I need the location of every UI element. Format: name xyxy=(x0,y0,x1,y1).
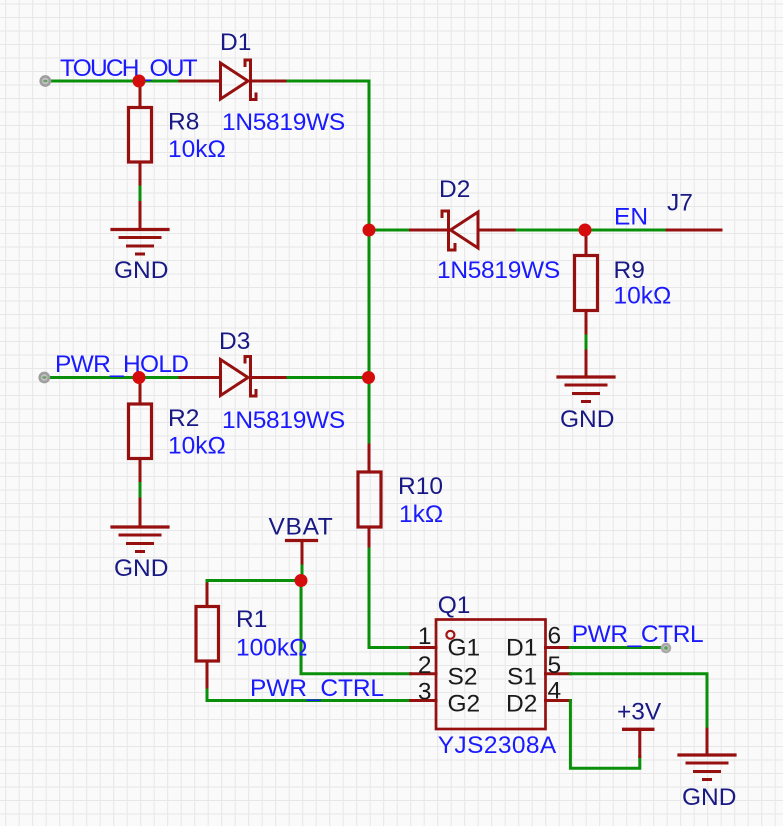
diode D3 triangle xyxy=(221,360,249,396)
svg-text:R1: R1 xyxy=(236,606,267,633)
wire R8 to GND xyxy=(139,187,142,203)
svg-text:VBAT: VBAT xyxy=(269,514,334,541)
svg-text:D1: D1 xyxy=(220,29,251,56)
power flag VBAT xyxy=(287,541,317,567)
wire junction to D2 xyxy=(369,229,411,232)
svg-text:D2: D2 xyxy=(439,176,470,203)
svg-text:Q1: Q1 xyxy=(438,592,471,619)
junction main/PWR_HOLD row xyxy=(362,371,375,384)
svg-text:3: 3 xyxy=(418,679,432,706)
Q1 pin 2 stub xyxy=(411,672,436,675)
svg-text:YJS2308A: YJS2308A xyxy=(438,732,557,759)
svg-text:TOUCH_OUT: TOUCH_OUT xyxy=(60,55,198,82)
resistor R10 top pin xyxy=(368,445,371,472)
ground symbol bottom right xyxy=(679,755,735,780)
port dot TOUCH_OUT xyxy=(39,75,51,87)
resistor R1 top pin xyxy=(206,584,209,607)
resistor R10 body xyxy=(358,472,381,527)
diode D3 cathode pin xyxy=(251,376,289,379)
svg-text:1N5819WS: 1N5819WS xyxy=(222,407,345,434)
diode D2 anode pin xyxy=(478,229,517,232)
pin-1 marker circle xyxy=(446,631,454,639)
diode D1 triangle xyxy=(221,63,249,99)
resistor R2 body xyxy=(129,404,152,459)
ground symbol under R2 xyxy=(112,527,168,552)
svg-text:R8: R8 xyxy=(168,109,199,136)
svg-text:+3V: +3V xyxy=(617,699,662,726)
wire D2 to J7 xyxy=(517,229,667,232)
svg-text:100kΩ: 100kΩ xyxy=(236,635,307,662)
svg-text:4: 4 xyxy=(548,678,562,705)
svg-text:2: 2 xyxy=(418,652,432,679)
wire VBAT to R1 xyxy=(207,581,301,585)
svg-text:S1: S1 xyxy=(507,664,537,691)
resistor R9 body xyxy=(575,256,598,311)
op chip Q1 body xyxy=(436,620,546,730)
wire PWR_HOLD horizontal xyxy=(49,376,180,379)
port dot PWR_CTRL xyxy=(661,643,672,654)
diode D2 schottky bar xyxy=(442,211,455,250)
diode D1 schottky bar xyxy=(245,60,256,100)
GND pin under R9 xyxy=(585,351,588,377)
wire D3 to main vertical xyxy=(288,376,369,379)
wire R1 to Q1 pin3 xyxy=(207,690,411,701)
wire VBAT down to Q1 pin2 xyxy=(301,581,411,674)
resistor R2 bottom pin xyxy=(139,459,142,484)
junction EN/R9 xyxy=(579,224,592,237)
resistor R8 bottom pin xyxy=(139,162,142,187)
power flag +3V xyxy=(624,729,653,756)
svg-text:R2: R2 xyxy=(168,405,199,432)
Q1 pin 4 stub xyxy=(546,699,571,702)
svg-text:6: 6 xyxy=(548,623,562,650)
junction TOUCH_OUT/R8 xyxy=(133,75,146,88)
diode D2 cathode pin xyxy=(411,229,449,232)
wire VBAT stem green xyxy=(301,566,304,575)
ground symbol under R9 xyxy=(558,377,614,402)
resistor R9 bottom pin xyxy=(585,311,588,337)
svg-text:1N5819WS: 1N5819WS xyxy=(437,257,560,284)
diode D2 triangle xyxy=(451,212,479,248)
connector J7 pin xyxy=(667,229,721,232)
svg-text:GND: GND xyxy=(682,784,736,811)
ground symbol under R8 xyxy=(112,230,168,255)
GND pin under R2 xyxy=(139,499,142,527)
svg-text:S2: S2 xyxy=(448,664,478,691)
svg-text:J7: J7 xyxy=(667,190,693,217)
wire D1 to main vertical xyxy=(288,80,369,83)
diode D1 anode pin xyxy=(180,80,220,83)
wire TOUCH_OUT horizontal xyxy=(50,80,180,83)
svg-text:D1: D1 xyxy=(506,635,537,662)
resistor R8 top pin xyxy=(139,81,142,108)
wire R9 to GND xyxy=(585,336,588,351)
wire Q1 pin5 to GND xyxy=(570,674,707,729)
svg-text:5: 5 xyxy=(548,652,562,679)
svg-text:D3: D3 xyxy=(219,328,250,355)
wire R10 to Q1 pin1 xyxy=(369,549,411,648)
svg-text:PWR_CTRL: PWR_CTRL xyxy=(572,621,704,648)
svg-text:GND: GND xyxy=(560,406,614,433)
svg-text:10kΩ: 10kΩ xyxy=(168,433,226,460)
svg-text:PWR_HOLD: PWR_HOLD xyxy=(55,351,188,378)
resistor R2 top pin xyxy=(139,378,142,405)
GND pin under R8 xyxy=(139,203,142,230)
junction PWR_HOLD/R2 xyxy=(133,371,146,384)
diode D3 schottky bar xyxy=(245,357,256,397)
svg-text:R9: R9 xyxy=(614,257,645,284)
Q1 pin 1 stub xyxy=(411,646,436,649)
svg-text:D2: D2 xyxy=(506,691,537,718)
Q1 pin 5 stub xyxy=(546,672,571,675)
diode D3 anode pin xyxy=(180,376,220,379)
resistor R9 top pin xyxy=(585,230,588,256)
Q1 pin 3 stub xyxy=(411,699,436,702)
resistor R1 body xyxy=(196,607,219,662)
svg-text:10kΩ: 10kΩ xyxy=(168,136,226,163)
svg-text:G1: G1 xyxy=(448,635,481,662)
svg-text:10kΩ: 10kΩ xyxy=(614,283,672,310)
resistor R1 bottom pin xyxy=(206,661,209,690)
wire Q1 pin6 PWR_CTRL xyxy=(570,646,663,649)
junction VBAT xyxy=(295,574,308,587)
resistor R8 body xyxy=(129,108,152,163)
svg-text:1: 1 xyxy=(418,623,432,650)
Q1 pin 6 stub xyxy=(546,646,571,649)
svg-text:1N5819WS: 1N5819WS xyxy=(222,109,345,136)
svg-text:PWR_CTRL: PWR_CTRL xyxy=(250,675,384,702)
GND pin bottom right xyxy=(706,729,709,755)
svg-text:EN: EN xyxy=(614,204,648,231)
junction main/EN row xyxy=(363,224,376,237)
diode D1 cathode pin xyxy=(251,80,289,83)
wire R2 to GND xyxy=(139,484,142,500)
svg-text:R10: R10 xyxy=(398,473,443,500)
svg-text:1kΩ: 1kΩ xyxy=(399,501,443,528)
svg-text:GND: GND xyxy=(114,555,168,582)
resistor R10 bottom pin xyxy=(368,527,371,549)
svg-text:G2: G2 xyxy=(448,691,481,718)
wire main vertical xyxy=(368,81,371,445)
port dot PWR_HOLD xyxy=(38,372,50,384)
svg-text:GND: GND xyxy=(114,257,168,284)
wire Q1 pin4 to +3V xyxy=(570,701,639,769)
